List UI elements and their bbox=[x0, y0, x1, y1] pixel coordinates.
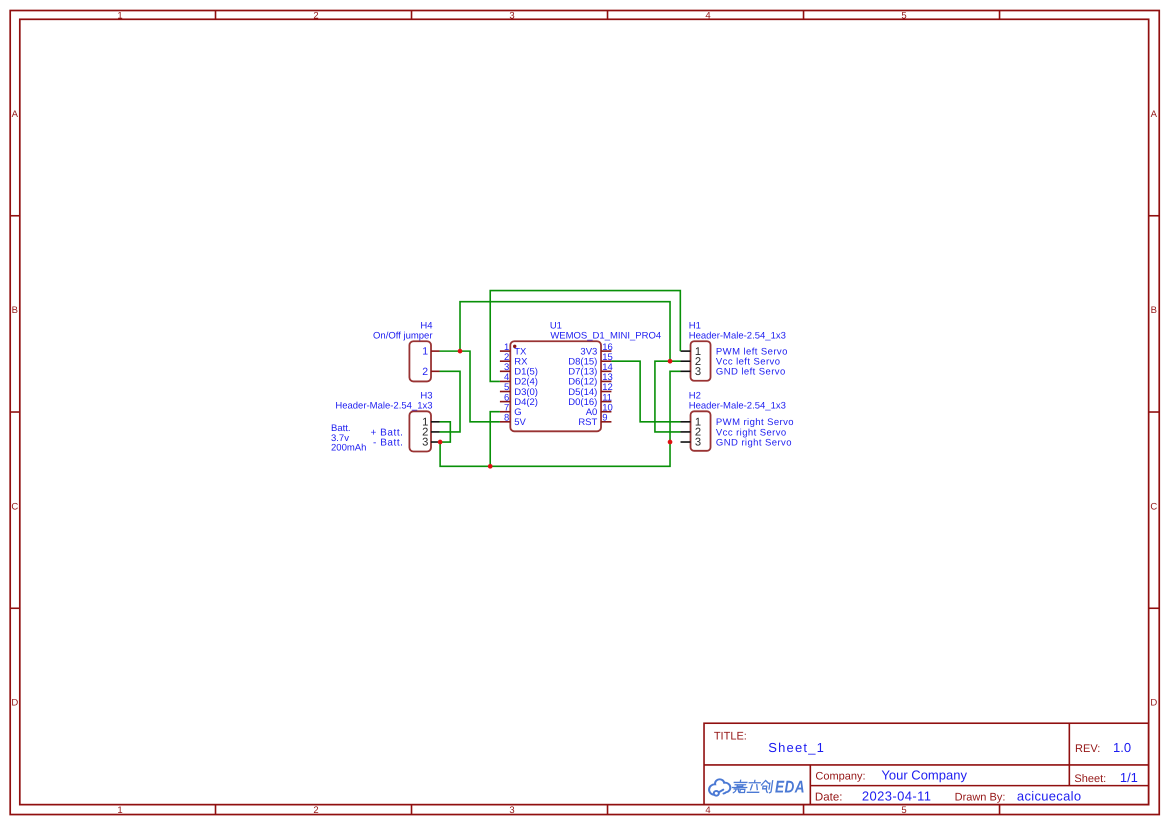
svg-text:9: 9 bbox=[602, 413, 607, 424]
svg-text:Header-Male-2.54_1x3: Header-Male-2.54_1x3 bbox=[335, 400, 432, 411]
svg-text:5V: 5V bbox=[514, 417, 526, 428]
svg-text:REV:: REV: bbox=[1075, 743, 1100, 755]
svg-text:2: 2 bbox=[313, 10, 318, 21]
svg-text:3: 3 bbox=[695, 437, 701, 449]
svg-text:GND left Servo: GND left Servo bbox=[716, 367, 786, 378]
svg-text:A: A bbox=[1151, 109, 1158, 120]
svg-text:5: 5 bbox=[901, 10, 906, 21]
svg-text:Drawn By:: Drawn By: bbox=[955, 791, 1006, 803]
svg-text:1: 1 bbox=[117, 805, 122, 816]
svg-text:1/1: 1/1 bbox=[1120, 770, 1138, 785]
svg-text:C: C bbox=[11, 501, 18, 512]
svg-text:B: B bbox=[12, 305, 18, 316]
svg-text:acicuecalo: acicuecalo bbox=[1017, 788, 1081, 803]
svg-text:Company:: Company: bbox=[815, 771, 865, 783]
svg-text:2: 2 bbox=[313, 805, 318, 816]
svg-text:A: A bbox=[12, 109, 19, 120]
svg-text:4: 4 bbox=[705, 10, 710, 21]
svg-text:TITLE:: TITLE: bbox=[714, 730, 747, 742]
svg-text:On/Off jumper: On/Off jumper bbox=[373, 330, 433, 341]
svg-text:5: 5 bbox=[901, 805, 906, 816]
svg-text:200mAh: 200mAh bbox=[331, 443, 366, 454]
svg-text:3: 3 bbox=[695, 366, 701, 378]
svg-text:3: 3 bbox=[422, 437, 428, 449]
svg-text:- Batt.: - Batt. bbox=[373, 437, 404, 448]
svg-text:B: B bbox=[1151, 305, 1157, 316]
svg-text:Date:: Date: bbox=[815, 791, 843, 803]
svg-text:8: 8 bbox=[504, 413, 509, 424]
svg-text:GND right Servo: GND right Servo bbox=[716, 437, 792, 448]
svg-text:D: D bbox=[11, 698, 18, 709]
svg-text:Header-Male-2.54_1x3: Header-Male-2.54_1x3 bbox=[689, 330, 786, 341]
svg-text:D: D bbox=[1150, 698, 1157, 709]
svg-text:Header-Male-2.54_1x3: Header-Male-2.54_1x3 bbox=[689, 400, 786, 411]
svg-text:Sheet_1: Sheet_1 bbox=[768, 740, 825, 755]
svg-text:3: 3 bbox=[509, 10, 514, 21]
svg-text:Your Company: Your Company bbox=[881, 768, 967, 783]
svg-text:2023-04-11: 2023-04-11 bbox=[862, 788, 932, 803]
svg-text:WEMOS_D1_MINI_PRO4: WEMOS_D1_MINI_PRO4 bbox=[550, 330, 661, 341]
svg-text:1.0: 1.0 bbox=[1113, 740, 1131, 755]
svg-text:Sheet:: Sheet: bbox=[1074, 773, 1106, 785]
svg-text:1: 1 bbox=[117, 10, 122, 21]
svg-text:1: 1 bbox=[422, 346, 428, 358]
svg-text:EDA: EDA bbox=[775, 778, 805, 797]
svg-text:2: 2 bbox=[422, 366, 428, 378]
svg-text:RST: RST bbox=[578, 417, 597, 428]
svg-text:C: C bbox=[1150, 501, 1157, 512]
svg-text:3: 3 bbox=[509, 805, 514, 816]
svg-text:4: 4 bbox=[705, 805, 710, 816]
